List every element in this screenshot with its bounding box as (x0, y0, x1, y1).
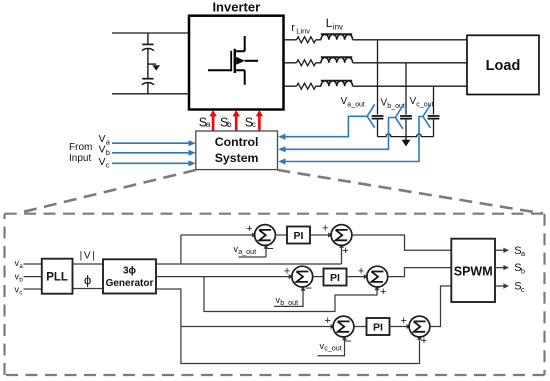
svg-text:From: From (69, 142, 92, 153)
svg-text:SPWM: SPWM (454, 265, 493, 279)
svg-text:a_out: a_out (347, 102, 365, 109)
svg-text:System: System (215, 151, 259, 165)
svg-text:a: a (206, 120, 211, 129)
svg-text:Generator: Generator (106, 278, 154, 289)
svg-text:inv: inv (333, 23, 343, 32)
svg-text:+: + (380, 286, 386, 298)
svg-text:ϕ: ϕ (84, 273, 91, 288)
svg-text:b_out: b_out (280, 298, 298, 307)
svg-text:c: c (521, 285, 525, 294)
svg-text:−: − (267, 241, 274, 255)
svg-text:Inverter: Inverter (212, 0, 260, 15)
svg-text:b: b (521, 267, 525, 276)
svg-text:Load: Load (486, 58, 521, 74)
svg-text:PI: PI (330, 272, 340, 284)
svg-text:+: + (246, 223, 252, 235)
svg-text:+: + (342, 245, 348, 257)
svg-text:V: V (99, 156, 106, 168)
svg-text:b: b (227, 120, 232, 129)
svg-text:Control: Control (215, 135, 259, 149)
svg-text:+: + (400, 315, 406, 327)
svg-text:L: L (326, 16, 333, 30)
svg-text:|V|: |V| (80, 251, 97, 262)
svg-text:b: b (19, 277, 23, 284)
svg-text:r: r (291, 22, 295, 34)
svg-text:Input: Input (69, 153, 91, 164)
svg-text:−: − (305, 281, 312, 295)
svg-text:b: b (106, 148, 110, 157)
svg-text:c: c (252, 120, 256, 129)
svg-text:+: + (324, 315, 330, 327)
svg-text:c: c (106, 161, 110, 170)
svg-text:+: + (284, 266, 290, 278)
svg-text:PI: PI (294, 230, 304, 242)
svg-text:+: + (421, 335, 427, 347)
svg-text:PI: PI (373, 322, 383, 334)
svg-text:a: a (19, 263, 23, 270)
svg-text:3ϕ: 3ϕ (123, 265, 137, 276)
svg-text:a_out: a_out (238, 247, 256, 256)
svg-text:PLL: PLL (46, 272, 68, 284)
svg-text:V: V (99, 144, 106, 156)
svg-text:−: − (345, 334, 352, 348)
svg-text:Linv: Linv (296, 27, 310, 36)
svg-text:c_out: c_out (324, 344, 342, 353)
svg-text:+: + (358, 266, 364, 278)
svg-text:+: + (322, 223, 328, 235)
